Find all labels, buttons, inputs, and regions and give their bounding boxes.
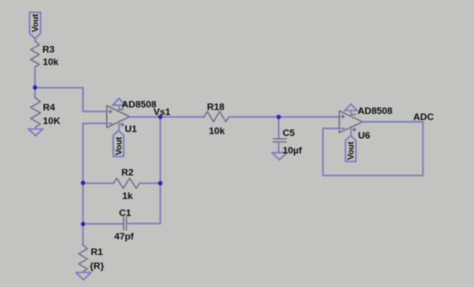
- junction node (divider): [33, 85, 37, 89]
- junction node (R2 right): [158, 181, 162, 185]
- net flag Vout (below U1): [113, 131, 124, 157]
- svg-text:10k: 10k: [43, 57, 60, 68]
- net flag Vout (below U6): [346, 136, 356, 162]
- svg-text:C1: C1: [119, 208, 132, 219]
- junction node (C5 top): [277, 115, 281, 119]
- svg-text:Vout: Vout: [30, 14, 40, 32]
- wire -in lead: [83, 122, 107, 124]
- junction node Vs1: [158, 115, 162, 119]
- wire Vs1 down to R2/C1: [126, 117, 160, 224]
- op-amp U1: [107, 106, 130, 128]
- wire R2 right lead: [140, 182, 161, 184]
- svg-text:AD8508: AD8508: [358, 106, 393, 117]
- svg-text:C5: C5: [283, 128, 296, 139]
- svg-text:ADC: ADC: [413, 112, 434, 123]
- wire left vertical (-in down to R1): [82, 123, 84, 244]
- resistor R3: [31, 41, 40, 67]
- wire C5 top lead: [278, 117, 280, 139]
- svg-text:U6: U6: [358, 131, 370, 142]
- svg-text:AD8508: AD8508: [122, 100, 157, 111]
- junction node (C1 left): [81, 222, 85, 226]
- svg-text:U1: U1: [125, 124, 138, 135]
- wire R2 left lead: [83, 182, 113, 184]
- svg-text:1k: 1k: [122, 191, 133, 202]
- capacitor C5: [273, 139, 286, 142]
- wire node to R4: [34, 88, 36, 98]
- ground (under R4): [28, 129, 43, 136]
- resistor R4: [31, 97, 41, 129]
- ground (under R1): [76, 273, 91, 280]
- svg-text:{R}: {R}: [90, 261, 105, 272]
- wire R3 to node: [34, 67, 36, 88]
- U6 bottom pin: [350, 127, 352, 136]
- power flag (top of U1): [112, 98, 125, 110]
- U1 bottom pin: [118, 121, 120, 130]
- svg-text:10µf: 10µf: [283, 146, 303, 157]
- net flag Vout (top left): [30, 12, 41, 41]
- svg-text:47pf: 47pf: [114, 232, 134, 243]
- svg-text:Vs1: Vs1: [154, 107, 172, 118]
- wire C1 left lead: [83, 223, 124, 225]
- op-amp U6: [339, 111, 362, 133]
- wire C5 bottom lead: [278, 142, 280, 153]
- resistor R1: [79, 245, 88, 273]
- svg-text:Vout: Vout: [114, 137, 124, 155]
- resistor R2: [113, 178, 139, 188]
- wire U6 output + feedback loop to ADC: [323, 122, 423, 176]
- power flag (top of U6): [344, 104, 357, 116]
- svg-text:10k: 10k: [209, 126, 226, 137]
- svg-text:R1: R1: [91, 247, 104, 258]
- svg-text:Vout: Vout: [346, 141, 356, 159]
- ground (under C5): [272, 153, 287, 160]
- junction node (R2 left): [81, 181, 85, 185]
- svg-text:R3: R3: [42, 44, 54, 55]
- svg-text:R2: R2: [121, 168, 133, 179]
- svg-text:10K: 10K: [43, 116, 61, 127]
- svg-text:R4: R4: [43, 103, 56, 114]
- wire U1 output to R18: [130, 116, 205, 118]
- wire R18 to U6: [229, 116, 339, 118]
- capacitor C1: [124, 217, 127, 230]
- wire node to +in path: [35, 88, 107, 112]
- svg-text:R18: R18: [207, 102, 224, 113]
- resistor R18: [204, 111, 229, 121]
